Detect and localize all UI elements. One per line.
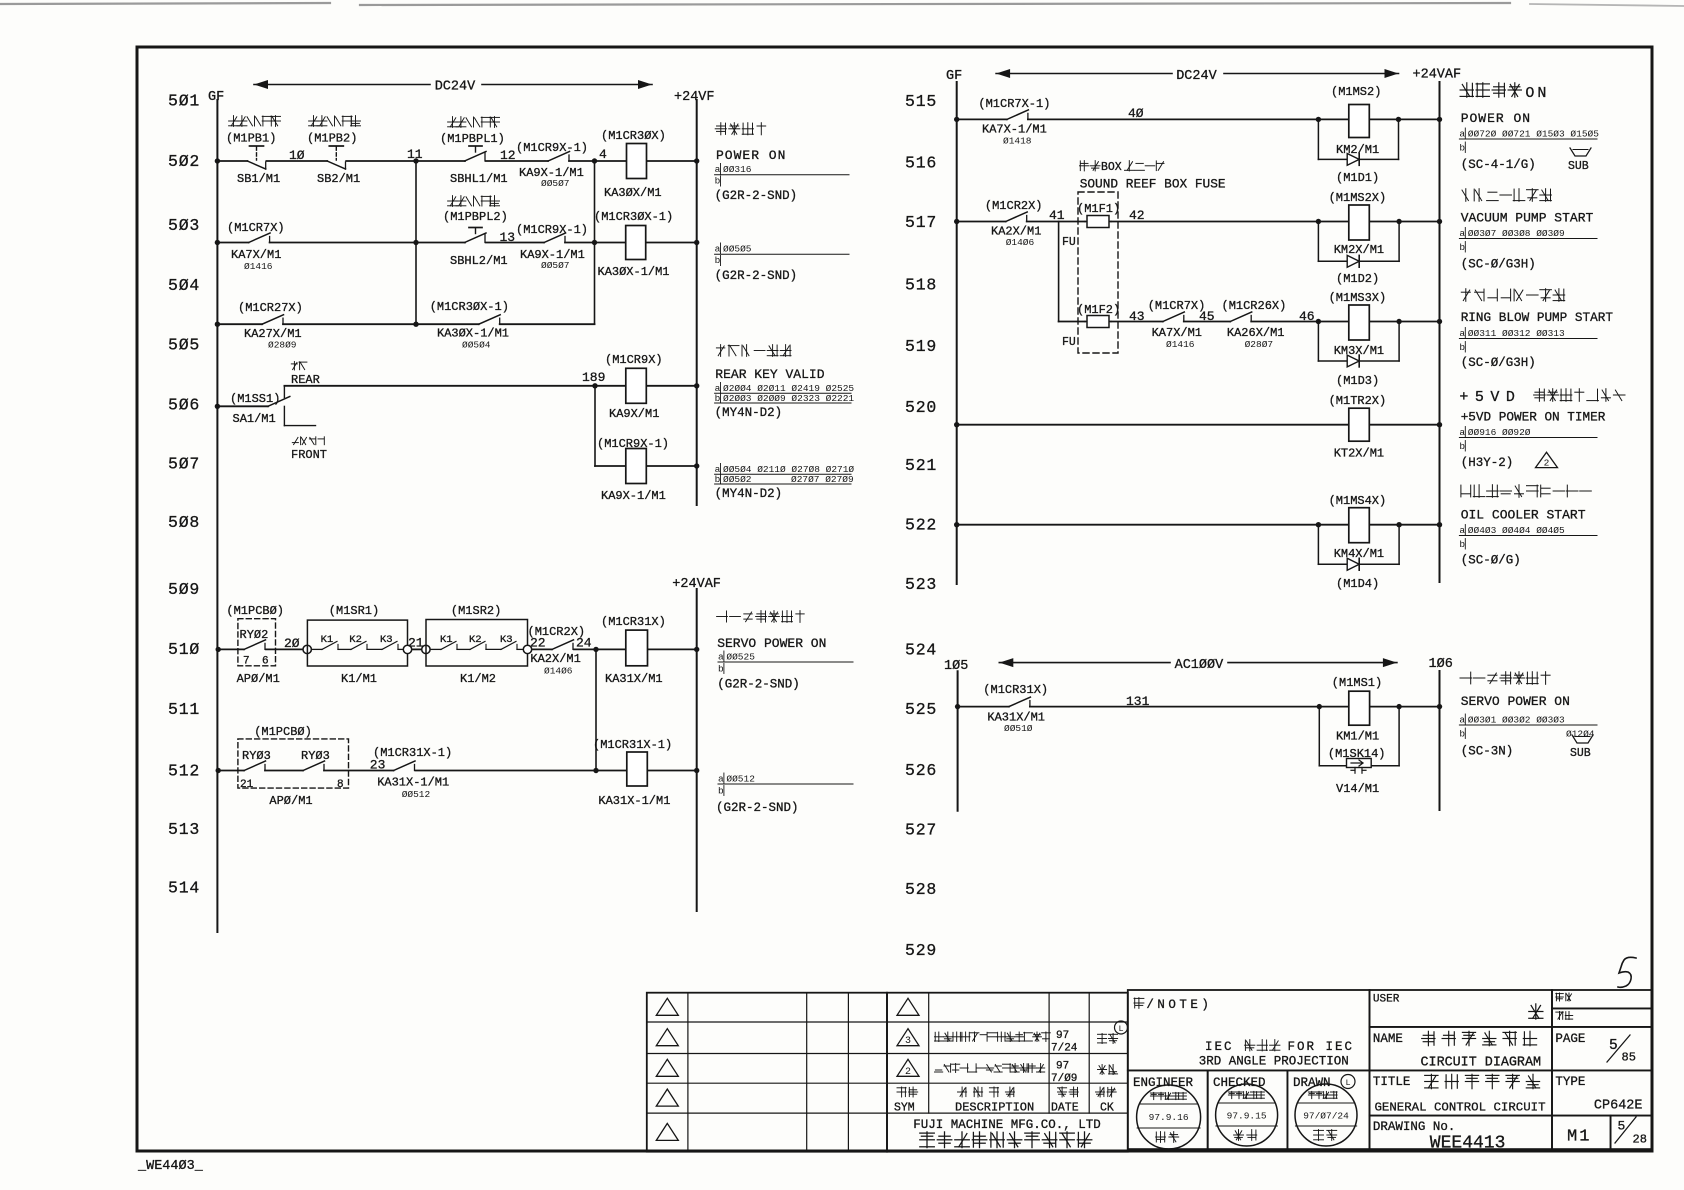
svg-text:(M1SR1): (M1SR1) [329,604,379,618]
svg-text:(M1CR3ØX-1): (M1CR3ØX-1) [430,300,509,314]
node 4 and branch wire down [595,147,608,324]
surge killer V14/M1 (M1SK14) [1319,707,1399,796]
pushbutton SB2/M1 (M1PB2) NC [307,116,361,186]
title block TYPE cell [1552,1070,1652,1115]
svg-text:2Ø: 2Ø [284,636,300,651]
svg-text:(M1MS3X): (M1MS3X) [1329,291,1387,305]
svg-text:(M1CR9X-1): (M1CR9X-1) [516,141,588,155]
svg-text:2: 2 [905,1067,911,1078]
svg-text:POWER ON: POWER ON [1461,111,1531,126]
svg-text:KA31X-1/M1: KA31X-1/M1 [377,776,449,790]
svg-text:FUJI MACHINE MFG.CO., LTD: FUJI MACHINE MFG.CO., LTD [913,1118,1101,1132]
svg-text:KA7X-1/M1: KA7X-1/M1 [982,123,1047,137]
svg-text:5Ø2: 5Ø2 [168,152,200,171]
svg-text:(M1PBPL2): (M1PBPL2) [443,210,508,224]
wire rung 502 [215,158,700,163]
svg-text:42: 42 [1129,208,1145,223]
svg-text:TITLE: TITLE [1373,1075,1411,1089]
svg-text:FOR IEC: FOR IEC [1288,1040,1355,1054]
svg-text:IEC: IEC [1205,1040,1234,1054]
svg-text:4: 4 [599,147,607,162]
svg-text:(M1PB1): (M1PB1) [226,132,276,146]
svg-text:SBHL2/M1: SBHL2/M1 [450,254,508,268]
bus wire GF right ladder [956,82,958,584]
svg-text:FU: FU [1062,236,1076,249]
svg-text:/NOTE): /NOTE) [1146,998,1212,1012]
svg-text:(M1CR3ØX): (M1CR3ØX) [601,129,666,143]
svg-text:5Ø9: 5Ø9 [168,580,200,599]
svg-text:b: b [715,474,721,485]
relay contact KA31X/M1 (M1CR31X) rung 525 [983,683,1048,734]
svg-text:DATE: DATE [1051,1102,1079,1115]
label OIL COOLER START block [1459,485,1597,568]
svg-text:517: 517 [905,213,937,232]
svg-text:ØØ512: ØØ512 [402,789,431,800]
relay contact KA26X/M1 (M1CR26X) [1222,299,1287,350]
net AC100V arrow [999,658,1397,673]
label block rung 503 output [715,243,849,283]
svg-text:520: 520 [905,398,937,417]
svg-text:3: 3 [905,1036,911,1047]
fuse M1F2 [1062,303,1120,349]
svg-text:ØØ311 ØØ312 ØØ313: ØØ311 ØØ312 ØØ313 [1468,328,1565,339]
label +5VD POWER ON TIMER block [1459,389,1625,470]
svg-text:43: 43 [1129,309,1145,324]
relay coil KA31X-1/M1 (M1CR31X-1) [593,738,672,808]
svg-text:L: L [1118,1024,1123,1034]
relay contact KA7X/M1 (M1CR7X) [227,221,285,272]
svg-text:(M1F2): (M1F2) [1077,303,1120,317]
scan edge artifact top [0,3,1684,6]
relay contact KA7X-1/M1 (M1CR7X-1) [978,97,1050,147]
svg-text:b: b [718,664,724,675]
relay contact KA30X-1/M1 (M1CR30X-1) NO [430,300,509,351]
node +24VAF label (left ladder lower) [672,577,721,592]
wire rung 504 [215,322,595,327]
svg-text:(M1SR2): (M1SR2) [451,604,501,618]
svg-text:(M1MS1): (M1MS1) [1332,676,1382,690]
svg-text:ØØ5Ø4: ØØ5Ø4 [462,340,491,351]
wire rung 522 [954,522,1442,527]
node 42 [1129,208,1145,223]
svg-text:ØØ5Ø5: ØØ5Ø5 [723,244,752,255]
svg-text:DC24V: DC24V [435,80,476,95]
svg-text:VACUUM PUMP START: VACUUM PUMP START [1461,211,1594,226]
title block revision table left [647,993,887,1152]
node 106 label [1429,657,1453,672]
wire rung 519 [1059,319,1443,324]
svg-text:Ø14Ø6: Ø14Ø6 [544,666,573,677]
svg-text:+5VD POWER ON TIMER: +5VD POWER ON TIMER [1461,410,1606,425]
svg-text:DC24V: DC24V [1176,69,1217,84]
title block sheet cells M1 5/28 [1552,1116,1652,1150]
node 41 and branch down [1049,208,1065,322]
svg-text:SB1/M1: SB1/M1 [237,172,280,186]
contactor coil KM3X/M1 (M1MS3X) [1329,291,1387,358]
svg-text:41: 41 [1049,208,1065,223]
relay contact KA9X-1/M1 (M1CR9X-1) rung502 [516,141,588,189]
label SERVO POWER ON block (rung 510) [717,611,853,692]
svg-text:(SC-Ø/G3H): (SC-Ø/G3H) [1461,258,1536,272]
label POWER ON block (rung 515) [1459,83,1599,173]
svg-text:b: b [1459,729,1465,740]
node 20 [284,636,300,651]
svg-text:TYPE: TYPE [1555,1075,1585,1089]
svg-text:5Ø3: 5Ø3 [168,216,200,235]
title block class cells [1552,990,1652,1027]
svg-text:513: 513 [168,820,200,839]
svg-text:a: a [1459,129,1465,140]
label RING BLOW PUMP START block [1459,289,1613,370]
diode M1D4 freewheel branch [1318,525,1399,591]
svg-text:KA9X/M1: KA9X/M1 [609,407,659,421]
svg-text:13: 13 [500,230,516,245]
svg-text:131: 131 [1126,694,1150,709]
svg-text:b: b [718,786,724,797]
svg-text:DESCRIPTION: DESCRIPTION [955,1101,1034,1115]
svg-text:528: 528 [905,880,937,899]
wire rung 507 [595,463,699,468]
svg-text:51Ø: 51Ø [168,640,200,659]
svg-text:BOX: BOX [1101,161,1122,174]
bus wire +24VAF right ladder [1439,82,1441,582]
title block revision table right [887,993,1128,1152]
svg-text:(SC-4-1/G): (SC-4-1/G) [1461,158,1536,172]
svg-text:(M1CR9X-1): (M1CR9X-1) [516,223,588,237]
svg-text:SOUND REEF BOX FUSE: SOUND REEF BOX FUSE [1080,177,1226,192]
svg-text:M1: M1 [1567,1128,1591,1147]
svg-text:97: 97 [1056,1061,1069,1073]
node 105 label [944,659,968,674]
svg-text:KA7X/M1: KA7X/M1 [1152,326,1202,340]
pushbutton SB1/M1 (M1PB1) NC [226,116,281,186]
svg-text:(M1CR7X): (M1CR7X) [1148,299,1206,313]
svg-text:WEE4413: WEE4413 [1430,1134,1506,1154]
svg-text:ØØ4Ø3 ØØ4Ø4 ØØ4Ø5: ØØ4Ø3 ØØ4Ø4 ØØ4Ø5 [1468,525,1565,536]
svg-text:5Ø8: 5Ø8 [168,513,200,532]
svg-text:OIL COOLER START: OIL COOLER START [1461,508,1586,523]
svg-text:ØØ525: ØØ525 [726,652,755,663]
svg-text:97/Ø7/24: 97/Ø7/24 [1303,1111,1349,1122]
timer coil KT2X/M1 (M1TR2X) [1329,394,1387,461]
svg-text:a: a [1459,328,1465,339]
diode M1D1 freewheel branch [1318,119,1398,185]
diode M1D2 freewheel branch [1318,222,1399,287]
svg-text:KA3ØX/M1: KA3ØX/M1 [604,186,662,200]
svg-text:SBHL1/M1: SBHL1/M1 [450,172,508,186]
node 12 [500,148,516,163]
svg-text:85: 85 [1622,1051,1636,1065]
svg-text:ENGINEER: ENGINEER [1133,1076,1194,1090]
svg-text:a: a [1459,228,1465,239]
svg-text:(M1CR31X): (M1CR31X) [983,683,1048,697]
line numbers 501-514 [168,92,200,898]
svg-text:5Ø1: 5Ø1 [168,92,200,111]
relay contact KA27X/M1 (M1CR27X) [238,301,303,351]
svg-text:_WE44Ø3_: _WE44Ø3_ [137,1159,204,1174]
svg-text:GENERAL CONTROL CIRCUIT: GENERAL CONTROL CIRCUIT [1375,1101,1546,1115]
svg-text:FU: FU [1062,336,1076,349]
svg-text:SUB: SUB [1570,747,1591,760]
node 10 [289,148,305,163]
svg-text:b: b [715,255,721,266]
diode M1D3 freewheel branch [1318,322,1399,389]
svg-text:524: 524 [905,641,937,660]
svg-text:REAR KEY VALID: REAR KEY VALID [715,367,824,382]
svg-text:ØØ5Ø2: ØØ5Ø2 [723,474,752,485]
node +24VF label [674,90,715,105]
net DC24V arrow (right) [996,69,1398,84]
svg-text:CIRCUIT DIAGRAM: CIRCUIT DIAGRAM [1421,1056,1542,1071]
svg-text:5Ø5: 5Ø5 [168,336,200,355]
wire rung 506 REAR line [284,383,699,388]
svg-text:ØØ916 ØØ92Ø: ØØ916 ØØ92Ø [1468,427,1531,438]
svg-text:V14/M1: V14/M1 [1336,782,1379,796]
contactor coil KM2X/M1 (M1MS2X) [1329,191,1387,257]
safety relay block K1/M1 (M1SR1) [303,604,412,686]
node 189 and branch down [582,370,605,466]
svg-text:Ø1416: Ø1416 [1166,339,1195,350]
svg-text:Ø14Ø6: Ø14Ø6 [1006,237,1035,248]
title block PAGE cell [1552,1027,1652,1071]
svg-text:(M1CR31X): (M1CR31X) [601,615,666,629]
node +24VAF label (right ladder) [1413,68,1462,83]
svg-text:APØ/M1: APØ/M1 [269,794,312,808]
fuse M1F1 [1062,202,1120,249]
wire rung 512 [216,768,700,773]
svg-text:11: 11 [407,147,423,162]
svg-text:529: 529 [905,941,937,960]
svg-text:(M1MS2X): (M1MS2X) [1329,191,1387,205]
svg-text:5Ø7: 5Ø7 [168,455,200,474]
svg-text:(M1CR9X): (M1CR9X) [605,353,663,367]
svg-text:KA26X/M1: KA26X/M1 [1227,326,1285,340]
svg-text:b: b [715,393,721,404]
svg-text:SB2/M1: SB2/M1 [317,172,360,186]
svg-text:(M1PBPL1): (M1PBPL1) [440,132,505,146]
label block rung 512 output [716,773,853,815]
svg-text:a: a [718,652,724,663]
svg-text:(M1MS2): (M1MS2) [1331,85,1381,99]
svg-text:K1/M2: K1/M2 [460,672,496,686]
svg-text:(M1TR2X): (M1TR2X) [1329,394,1387,408]
svg-text:7: 7 [243,656,250,668]
svg-text:515: 515 [905,92,937,111]
svg-text:(M1CR31X-1): (M1CR31X-1) [373,746,452,760]
bus wire +24VAF right lower segment [696,589,698,911]
contactor coil KM4X/M1 (M1MS4X) [1329,494,1387,561]
svg-text:KM1/M1: KM1/M1 [1336,730,1379,744]
relay contact KA2X/M1 (M1CR2X) rung 517 [985,199,1043,248]
svg-text:+5VD: +5VD [1459,389,1521,406]
svg-text:KA3ØX-1/M1: KA3ØX-1/M1 [598,265,670,279]
svg-text:NAME: NAME [1373,1032,1403,1046]
svg-text:a: a [1459,525,1465,536]
wire rung 515 [954,117,1442,122]
label block rung 507 output [715,464,855,502]
svg-text:97.9.16: 97.9.16 [1149,1112,1189,1123]
pushbutton SBHL2/M1 (M1PBPL2) NC [443,196,508,268]
svg-text:1Ø6: 1Ø6 [1429,657,1453,672]
svg-text:ØØ51Ø: ØØ51Ø [1004,723,1033,734]
stamp CHECKED [1208,1070,1288,1149]
label VACUUM PUMP START block [1459,189,1597,272]
node 23 [370,758,386,773]
svg-text:ØØ3Ø7 ØØ3Ø8 ØØ3Ø9: ØØ3Ø7 ØØ3Ø8 ØØ3Ø9 [1468,228,1565,239]
svg-text:519: 519 [905,337,937,356]
wire rung 520 [954,422,1442,427]
svg-text:5Ø6: 5Ø6 [168,396,200,415]
svg-text:ØØ316: ØØ316 [723,164,752,175]
svg-text:Ø28Ø9: Ø28Ø9 [268,340,297,351]
svg-text:RING BLOW PUMP START: RING BLOW PUMP START [1461,310,1614,325]
svg-text:b: b [1459,539,1465,550]
svg-text:(SC-Ø/G3H): (SC-Ø/G3H) [1461,356,1536,370]
svg-text:189: 189 [582,370,605,385]
svg-text:b: b [1459,441,1465,452]
fuse box label SOUND REEF BOX FUSE [1078,161,1226,353]
svg-text:24: 24 [576,636,592,651]
svg-text:GF: GF [946,69,962,84]
svg-text:1Ø: 1Ø [289,148,305,163]
svg-text:KA7X/M1: KA7X/M1 [231,248,281,262]
svg-text:97: 97 [1056,1030,1069,1042]
relay coil KA30X/M1 (M1CR30X) [601,129,666,200]
relay coil KA31X/M1 (M1CR31X) [601,615,666,686]
svg-text:L: L [1345,1078,1350,1088]
node 43 [1129,309,1145,324]
svg-text:SUB: SUB [1568,160,1589,173]
svg-text:511: 511 [168,700,200,719]
svg-text:28: 28 [1633,1133,1647,1147]
svg-text:K1/M1: K1/M1 [341,672,377,686]
svg-text:(M1SK14): (M1SK14) [1328,747,1386,761]
svg-text:KA31X-1/M1: KA31X-1/M1 [598,794,670,808]
node 45 [1199,309,1215,324]
svg-text:(M1D2): (M1D2) [1336,272,1379,286]
handwritten page mark 5 [1618,957,1636,987]
svg-text:45: 45 [1199,309,1215,324]
svg-text:(M1PB2): (M1PB2) [307,132,357,146]
svg-text:(M1CR2X): (M1CR2X) [985,199,1043,213]
svg-text:(MY4N-D2): (MY4N-D2) [715,406,783,420]
svg-text:b: b [715,176,721,187]
svg-text:(M1F1): (M1F1) [1077,202,1120,216]
svg-text:523: 523 [905,575,937,594]
svg-text:8: 8 [337,779,344,791]
svg-text:RYØ3: RYØ3 [242,749,271,763]
svg-text:CP642E: CP642E [1594,1099,1643,1114]
svg-text:SERVO POWER ON: SERVO POWER ON [717,636,826,651]
svg-text:ØØ512: ØØ512 [726,774,755,785]
svg-text:a: a [715,244,721,255]
svg-text:(G2R-2-SND): (G2R-2-SND) [715,189,798,203]
svg-text:CHECKED: CHECKED [1213,1076,1266,1090]
bus wire 106 right [1439,671,1441,810]
node 21 [408,636,424,651]
svg-text:a: a [715,164,721,175]
svg-text:516: 516 [905,154,937,173]
svg-text:POWER ON: POWER ON [716,148,786,163]
svg-text:97.9.15: 97.9.15 [1227,1111,1267,1122]
svg-text:b: b [1459,143,1465,154]
svg-text:(M1CR9X-1): (M1CR9X-1) [597,437,669,451]
relay contact KA7X/M1 (M1CR7X) rung 519 [1148,299,1206,350]
title block USER box [1370,990,1553,1027]
pushbutton SBHL1/M1 (M1PBPL1) NC [440,117,508,186]
title block NAME row [1370,1027,1553,1071]
title block note box [1128,990,1370,1070]
net DC24V arrow (left) [254,80,652,95]
node GF label (right) [946,69,962,84]
svg-text:(M1D3): (M1D3) [1336,374,1379,388]
svg-text:527: 527 [905,821,937,840]
contactor coil KM2/M1 (M1MS2) [1331,85,1381,157]
node 46 [1299,309,1315,324]
wire rung 525 [955,704,1442,709]
svg-text:(G2R-2-SND): (G2R-2-SND) [717,678,800,692]
svg-text:AC1ØØV: AC1ØØV [1175,658,1225,673]
svg-text:KA3ØX-1/M1: KA3ØX-1/M1 [437,327,509,341]
svg-text:SERVO POWER ON: SERVO POWER ON [1461,694,1570,709]
svg-text:7/Ø9: 7/Ø9 [1051,1073,1077,1085]
svg-text:b: b [1459,242,1465,253]
pcb relay contact RY02 AP0/M1 (M1PCB0) [226,604,284,686]
svg-text:ON: ON [1525,85,1549,102]
svg-text:+24VF: +24VF [674,90,715,105]
label SERVO POWER ON block (rung 525) [1459,672,1597,760]
svg-text:4Ø: 4Ø [1128,106,1144,121]
svg-text:(M1D4): (M1D4) [1336,577,1379,591]
svg-text:512: 512 [168,762,200,781]
label POWER ON block (rung 502) [715,123,849,203]
relay coil KA30X-1/M1 (M1CR30X-1) [594,210,673,279]
svg-text:Ø1418: Ø1418 [1003,136,1032,147]
svg-text:7/24: 7/24 [1051,1043,1078,1055]
wire rung 510 [216,647,700,652]
svg-text:Ø27Ø7 Ø27Ø9: Ø27Ø7 Ø27Ø9 [791,474,854,485]
selector switch SA1/M1 (M1SS1) REAR/FRONT [215,362,327,463]
svg-text:CK: CK [1100,1102,1114,1115]
stamp DRAWN [1287,1070,1369,1149]
svg-text:(M1CR7X-1): (M1CR7X-1) [978,97,1050,111]
svg-text:ØØ72Ø ØØ721 Ø15Ø3 Ø15Ø5: ØØ72Ø ØØ721 Ø15Ø3 Ø15Ø5 [1468,129,1599,140]
node 11 and branch wire down [407,147,423,324]
svg-text:526: 526 [905,761,937,780]
svg-text:RYØ3: RYØ3 [301,749,330,763]
svg-text:(M1CR3ØX-1): (M1CR3ØX-1) [594,210,673,224]
stamp ENGINEER [1128,1070,1208,1149]
svg-text:5Ø4: 5Ø4 [168,276,200,295]
svg-text:(M1CR7X): (M1CR7X) [227,221,285,235]
svg-text:a: a [718,774,724,785]
svg-text:USER: USER [1373,994,1400,1006]
wire rung 503 [215,240,700,245]
svg-text:APØ/M1: APØ/M1 [237,672,280,686]
relay coil KA9X-1/M1 (M1CR9X-1) [597,437,669,503]
svg-text:(M1PCBØ): (M1PCBØ) [226,604,284,618]
svg-text:Ø28Ø7: Ø28Ø7 [1245,339,1274,350]
svg-text:a: a [1459,427,1465,438]
svg-text:2: 2 [1544,457,1550,468]
svg-text:KM2/M1: KM2/M1 [1336,143,1379,157]
title block TITLE row [1370,1070,1553,1115]
svg-text:(M1D1): (M1D1) [1336,171,1379,185]
svg-text:(G2R-2-SND): (G2R-2-SND) [716,801,799,815]
safety relay block K1/M2 (M1SR2) [422,604,532,686]
svg-text:525: 525 [905,700,937,719]
svg-text:KA9X-1/M1: KA9X-1/M1 [601,489,666,503]
